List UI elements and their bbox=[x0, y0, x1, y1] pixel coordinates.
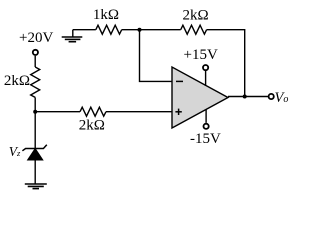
resistor R1 2kΩ (left vertical) bbox=[31, 67, 40, 97]
node B junction dot bbox=[138, 28, 142, 32]
svg-text:2kΩ: 2kΩ bbox=[183, 8, 209, 24]
wire R1 to node A bbox=[34, 97, 36, 148]
terminal +20V bbox=[33, 50, 38, 55]
label 1kΩ (R3) bbox=[93, 7, 119, 23]
terminal Vo bbox=[269, 94, 274, 99]
svg-text:+15V: +15V bbox=[184, 47, 218, 63]
terminal +15V bbox=[203, 65, 208, 70]
wire op-amp output to terminal bbox=[228, 96, 269, 98]
svg-text:1kΩ: 1kΩ bbox=[93, 7, 119, 23]
label +20V bbox=[19, 30, 53, 46]
label 2kΩ (R1) bbox=[4, 73, 30, 89]
resistor R3 1kΩ (horizontal top) bbox=[96, 25, 122, 34]
ground (top, at 1kΩ) bbox=[62, 30, 83, 42]
svg-text:2kΩ: 2kΩ bbox=[79, 118, 105, 134]
wire node B to R4 bbox=[140, 29, 181, 31]
op-amp U1 bbox=[172, 67, 228, 128]
node C output junction dot bbox=[243, 95, 247, 99]
wire R2 to op-amp + input bbox=[106, 111, 173, 113]
wire +20V terminal to R1 bbox=[34, 56, 36, 67]
terminal -15V bbox=[204, 124, 209, 129]
resistor R2 2kΩ (horizontal, to + input) bbox=[80, 107, 106, 116]
label 2kΩ (R2) bbox=[79, 118, 105, 134]
wire R3 to node B bbox=[122, 29, 140, 31]
svg-text:2kΩ: 2kΩ bbox=[4, 73, 30, 89]
label Vo bbox=[275, 90, 289, 106]
wire zener to ground bbox=[34, 160, 36, 184]
svg-text:-15V: -15V bbox=[190, 131, 221, 147]
wire +15V to op-amp top bbox=[205, 71, 207, 86]
zener diode Vz bbox=[22, 145, 46, 160]
node A junction dot bbox=[33, 110, 37, 114]
svg-text:+20V: +20V bbox=[19, 30, 53, 46]
wire -15V to op-amp bottom bbox=[205, 110, 207, 123]
label Vz bbox=[9, 144, 21, 159]
label 2kΩ (R4 feedback) bbox=[183, 8, 209, 24]
label -15V bbox=[190, 131, 221, 147]
wire node A to R2 (+ input wire) bbox=[35, 111, 80, 113]
wire node B down to - input bbox=[140, 30, 173, 82]
label +15V bbox=[184, 47, 218, 63]
resistor R4 2kΩ (feedback) bbox=[181, 25, 207, 34]
wire R4 to right corner bbox=[207, 30, 245, 97]
ground (bottom left) bbox=[25, 184, 47, 189]
wire top ground to R3 bbox=[73, 29, 96, 31]
